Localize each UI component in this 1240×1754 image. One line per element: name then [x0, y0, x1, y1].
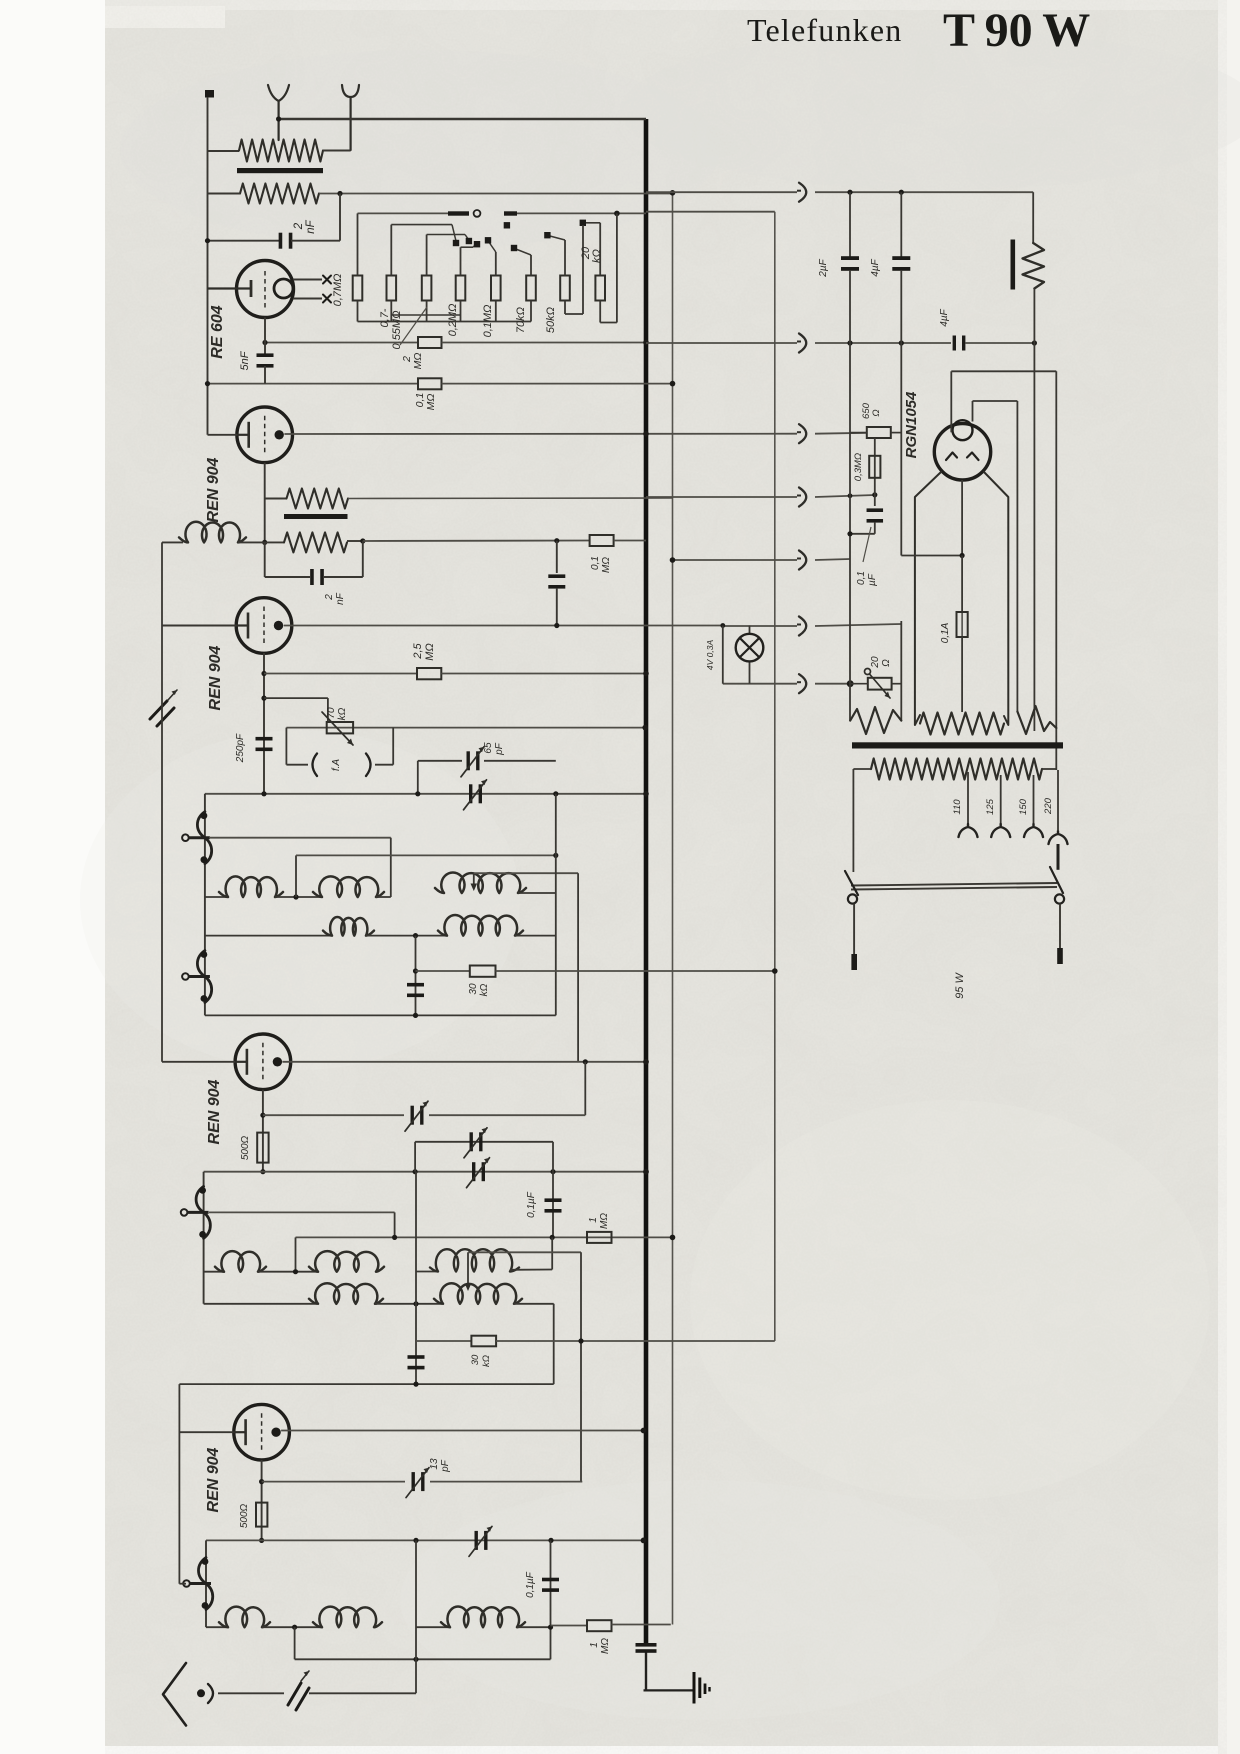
wire terminal to coil L1 — [208, 150, 240, 152]
wire V6 anode1 top link — [951, 370, 1056, 372]
wire V2 anode line to connector — [284, 433, 797, 435]
connector plug 6 — [799, 617, 806, 636]
core bar of choke — [284, 514, 348, 519]
contact dot of selector switch — [544, 232, 550, 238]
svg-text:kΩ: kΩ — [481, 1355, 492, 1367]
capacitor C23 0,1uF — [867, 508, 884, 512]
wire to potentiometer — [264, 697, 328, 699]
wire left vertical V1 grid chain — [207, 151, 209, 435]
wire C18 to filter3 — [309, 1692, 416, 1694]
wire filter2 right vertical — [553, 1304, 555, 1384]
wire W2 end right — [1055, 371, 1057, 770]
svg-text:150: 150 — [1018, 798, 1029, 815]
trimmer capacitor C8 on left vertical — [150, 701, 174, 726]
junction net B top — [670, 190, 676, 196]
svg-text:MΩ: MΩ — [600, 1638, 611, 1654]
resistor R18 30kOhm — [471, 1336, 496, 1347]
resistor network R6 (box) — [526, 276, 536, 301]
coil L4 (3 bumps) — [179, 522, 246, 543]
wire R15 to net C — [496, 970, 775, 972]
junction speaker lead — [1032, 340, 1037, 345]
resistor R22 0,3MOhm — [869, 456, 880, 478]
wire plug4 to divider — [815, 495, 875, 497]
wire W2 end left — [1016, 401, 1018, 712]
mains pin left blob — [851, 954, 857, 970]
variable capacitor C16 — [475, 1531, 478, 1550]
svg-text:Ω: Ω — [881, 659, 892, 667]
transformer heater winding W1 (zigzag) — [850, 707, 901, 734]
junction at bus — [642, 725, 648, 731]
svg-text:0,1µF: 0,1µF — [526, 1191, 537, 1218]
resistor R20 1MOhm — [587, 1620, 612, 1631]
wire to speaker — [1032, 192, 1034, 243]
wire varcap row left — [263, 1114, 404, 1116]
wire oscillator vertical — [580, 1252, 582, 1481]
band switch S3 — [181, 1186, 211, 1238]
junction at net C — [772, 968, 778, 974]
svg-text:REN 904: REN 904 — [207, 645, 224, 710]
wiper contact (open circle) — [474, 210, 481, 217]
junction C4 at anode line — [554, 623, 559, 628]
svg-text:0,1: 0,1 — [856, 571, 867, 585]
junction oscillator vertical — [578, 1338, 583, 1343]
svg-text:4µF: 4µF — [939, 308, 950, 326]
wire anode vertical V4 — [577, 873, 579, 1062]
tube V1 RE 604 — [208, 261, 294, 318]
trimmer C11 — [470, 1132, 473, 1151]
svg-text:30: 30 — [470, 1354, 481, 1365]
wire to R13 2,5MOhm — [264, 673, 417, 675]
svg-text:REN 904: REN 904 — [205, 1447, 222, 1512]
coil L16 filter3 mid — [313, 1607, 382, 1628]
capacitor C13 0,1uF — [545, 1198, 562, 1202]
wire pot line to bus — [286, 727, 646, 729]
svg-text:0,1A: 0,1A — [940, 622, 951, 643]
svg-text:kΩ: kΩ — [337, 707, 348, 720]
junction L2 / capacitor branch — [337, 191, 342, 196]
svg-text:4µF: 4µF — [870, 258, 881, 276]
svg-text:RGN1054: RGN1054 — [903, 391, 920, 458]
resistor R10 2MOhm — [418, 337, 442, 348]
wire R21 to HT chain — [891, 432, 902, 434]
arrow of potentiometer — [322, 712, 353, 745]
svg-text:2: 2 — [324, 594, 335, 601]
wire anode1 drop — [950, 371, 952, 432]
wire 4uF rail left — [646, 342, 797, 344]
wire plug5 to rail — [815, 559, 850, 560]
coil L12 oscillator (loops) — [416, 1271, 437, 1273]
wire filter3 right vertical — [550, 1540, 552, 1659]
wire rheostat right vertical — [900, 621, 902, 721]
wire tap 125 — [1000, 775, 1002, 824]
trimmer C12 — [472, 1162, 475, 1181]
switch f.A — [286, 728, 393, 776]
junction RC branch — [360, 538, 365, 543]
coil L17 filter3 right — [416, 1626, 449, 1628]
junction 5nF top — [262, 340, 267, 345]
svg-text:20: 20 — [870, 656, 881, 669]
svg-text:0,7-: 0,7- — [379, 308, 391, 327]
wire trimmer box left — [417, 761, 419, 794]
wire cathode return row — [204, 1171, 646, 1173]
wire V3 grid lead from far-left vertical — [162, 625, 237, 627]
wire L2 to net B — [319, 193, 673, 195]
resistor R11 0,1MOhm — [418, 378, 442, 389]
svg-text:pF: pF — [440, 1459, 451, 1473]
wire filter1 left vertical — [204, 794, 206, 1016]
transformer winding W3 (zigzag hook) — [1017, 706, 1056, 734]
wire to R18 30kOhm — [416, 1340, 471, 1342]
wire V4 cathode chain — [262, 1090, 264, 1172]
svg-text:nF: nF — [335, 592, 346, 605]
wire row2 middle — [366, 935, 446, 937]
wire RC branch down — [362, 541, 364, 577]
resistor network R5 (box) — [491, 276, 501, 301]
junction at bus — [641, 1538, 647, 1544]
wire R18 to net C — [496, 1340, 775, 1342]
transformer core bar — [852, 742, 1063, 748]
tube V6 envelope leads — [915, 472, 941, 725]
wire tap row to right vertical — [296, 854, 556, 856]
wire network top connections — [358, 213, 601, 275]
svg-text:1: 1 — [589, 1642, 600, 1648]
x mark pin — [323, 295, 331, 303]
svg-text:0,55MΩ: 0,55MΩ — [391, 311, 403, 350]
svg-text:13: 13 — [429, 1458, 440, 1470]
rheostat arrow — [870, 674, 891, 698]
wire top HT rail right — [815, 191, 1033, 193]
svg-text:110: 110 — [952, 799, 963, 815]
trimmer C15 13pF — [412, 1472, 415, 1491]
wire connector 3 to R 650 Ohm — [815, 432, 867, 435]
wire long vertical net B — [672, 192, 674, 1624]
svg-text:0,1: 0,1 — [590, 556, 601, 570]
wire selector rail B — [504, 211, 517, 215]
connector plug 3 — [799, 424, 806, 443]
wire V6 filament centre — [961, 480, 963, 556]
contact dot of selector switch — [474, 241, 480, 247]
svg-text:kΩ: kΩ — [479, 983, 490, 996]
wire divider chain — [874, 438, 876, 506]
svg-text:5nF: 5nF — [239, 350, 251, 370]
coil L6 row1 right — [313, 876, 384, 897]
svg-text:65: 65 — [483, 742, 494, 754]
capacitor C17 0,1uF — [542, 1578, 559, 1582]
wire speaker return — [1033, 289, 1035, 732]
junction antenna stem / top rail — [276, 116, 281, 121]
wire divider to rail — [850, 533, 875, 535]
choke L3b (zigzag) — [284, 532, 347, 552]
wire inner rail — [295, 1658, 551, 1660]
resistor R21 650 Ohm — [867, 427, 891, 438]
wire mains pin left — [853, 904, 855, 956]
wire selector rail A with wiper — [358, 212, 449, 214]
resistor R15 30kOhm — [470, 966, 496, 977]
wire V5 grid vertical — [178, 1384, 180, 1584]
connector plug 2 — [799, 334, 806, 353]
tube V3 REN 904 (2nd) — [236, 598, 292, 654]
svg-text:f.A: f.A — [331, 759, 342, 772]
wire PSU left rail — [849, 270, 851, 721]
wire L4 left lead — [162, 541, 183, 543]
wire R10 to bus — [442, 342, 647, 344]
wire top HT rail left — [646, 191, 797, 193]
svg-text:Ω: Ω — [871, 409, 882, 416]
wire to coil E right lead — [551, 1237, 553, 1269]
svg-text:0,1µF: 0,1µF — [525, 1571, 536, 1598]
wire to choke zigzag — [265, 498, 287, 500]
wire rowA tap — [295, 1237, 297, 1271]
contact dot of selector switch — [485, 237, 491, 243]
junction at bus — [643, 671, 649, 677]
resistor R13 2,5MOhm — [417, 668, 441, 679]
wire C2 to grid row — [264, 366, 266, 384]
wire between L5 L6 — [275, 896, 321, 898]
wire R11 to net B — [442, 383, 673, 385]
wire 220 to switch right — [1057, 844, 1060, 870]
coil L13 rowB left — [204, 1303, 317, 1305]
coil L15 filter3 left — [206, 1626, 227, 1628]
plug pin dot — [197, 1689, 205, 1697]
wire L12 right lead — [510, 1269, 552, 1271]
svg-text:500Ω: 500Ω — [240, 1135, 251, 1160]
wire right vertical to 0,1uF — [552, 1142, 554, 1237]
junction pot row — [261, 696, 266, 701]
wire long vertical net C (oscillator) — [774, 212, 776, 1341]
svg-text:2,5: 2,5 — [412, 642, 424, 659]
wire bus below series capacitor — [645, 1652, 647, 1690]
wire W4 to switch left — [852, 769, 854, 872]
svg-text:30: 30 — [468, 983, 479, 995]
junction at net B — [670, 557, 676, 563]
resistor network R2 (box) — [387, 276, 397, 301]
wire cap C4 branch upper — [556, 541, 558, 573]
resistor network R1 (box) — [353, 276, 363, 301]
resistor network R7 (box) — [560, 276, 570, 301]
resistor R16 500 Ohm — [257, 1133, 268, 1163]
wire plug6 to rheostat box — [815, 624, 901, 626]
wire filter3 left vertical — [205, 1540, 207, 1627]
rheostat R23 20 Ohm — [868, 678, 892, 690]
wire rail to R21 — [850, 432, 867, 434]
wire tap to anode vertical — [474, 872, 578, 874]
wire S3 wiper arm — [209, 1211, 395, 1213]
wire L4 to zigzag L3b — [238, 541, 284, 543]
capacitor C4 — [548, 574, 565, 578]
coil L5 row1 left — [205, 896, 227, 898]
dial lamp — [723, 626, 764, 684]
svg-text:pF: pF — [494, 742, 505, 756]
wire anode drop — [584, 1062, 586, 1115]
svg-text:70kΩ: 70kΩ — [515, 307, 527, 333]
resistor network R4 (box) — [456, 276, 466, 301]
fuse 0,1A — [957, 612, 968, 637]
wire grid row filter3 — [206, 1539, 644, 1541]
mains switch lever — [845, 867, 1064, 904]
wire filter1 right vertical — [555, 794, 557, 1016]
svg-text:1: 1 — [588, 1217, 599, 1223]
wire 13pF row right — [430, 1481, 582, 1483]
wire junction drop — [339, 194, 341, 241]
junction anode vertical — [583, 1059, 588, 1064]
svg-text:T 90 W: T 90 W — [943, 4, 1090, 57]
wire from bus to net C top — [646, 211, 775, 213]
wire C1 to junction — [291, 240, 340, 242]
svg-text:RE 604: RE 604 — [209, 305, 226, 358]
junction varcap row — [260, 1113, 265, 1118]
svg-text:250pF: 250pF — [235, 733, 246, 763]
wire tap row to vertical — [468, 1251, 581, 1253]
wire trim box top — [415, 1141, 553, 1143]
antenna terminal — [205, 90, 214, 98]
capacitor C19 (bus series) — [636, 1643, 657, 1647]
svg-text:500Ω: 500Ω — [239, 1503, 250, 1528]
wire to S4 contact — [179, 1583, 186, 1585]
wire 13pF row — [262, 1481, 405, 1483]
coil L11 rowA right — [309, 1251, 384, 1272]
wire trim box left — [414, 1142, 416, 1172]
band switch S1 — [182, 812, 212, 864]
connector plug 1 — [799, 183, 806, 202]
transformer mains primary W4 (zigzag) — [871, 759, 1042, 780]
svg-text:MΩ: MΩ — [599, 1213, 610, 1229]
contact dot of selector switch — [466, 238, 472, 244]
svg-text:nF: nF — [305, 219, 317, 233]
junction heater rail — [847, 680, 854, 687]
connector plug 7 — [799, 674, 806, 693]
wire lamp bottom rail — [723, 683, 797, 685]
junction cathode / L4 — [262, 540, 267, 545]
svg-text:MΩ: MΩ — [425, 394, 437, 411]
contact dot of selector switch — [453, 240, 459, 246]
wire grid row V5 — [296, 1236, 673, 1238]
svg-text:kΩ: kΩ — [591, 249, 603, 263]
coil L2 antenna secondary (zigzag) — [240, 184, 319, 204]
resistor R12 0,1MOhm — [590, 535, 614, 546]
wire to R15 30kOhm — [416, 970, 470, 972]
svg-text:2: 2 — [293, 222, 305, 230]
resistor R17 1MOhm — [587, 1232, 612, 1243]
mains tap fork 125 — [991, 824, 1010, 837]
wire V4 anode line — [282, 1061, 646, 1063]
wire V5 anode line — [281, 1430, 643, 1432]
tube V5 REN 904 (4th) — [234, 1404, 290, 1460]
junction lamp loop — [720, 623, 725, 628]
junction row1 tap — [293, 894, 298, 899]
wire filter1 bottom rail — [205, 1014, 556, 1016]
wire V6 anode2 top link — [973, 400, 1018, 402]
resistor network R3 (box) — [422, 276, 432, 301]
svg-text:0,2MΩ: 0,2MΩ — [447, 304, 459, 337]
trimmer C6 65pF — [467, 751, 470, 770]
coil L1 antenna primary (zigzag) — [239, 140, 323, 162]
svg-text:2µF: 2µF — [818, 258, 829, 277]
wire plug to C18 — [218, 1692, 284, 1694]
svg-text:REN 904: REN 904 — [206, 1079, 223, 1144]
trimmer C7 (padder) — [469, 784, 472, 803]
leader line 0,1uF — [863, 527, 871, 562]
wire bus to ground — [644, 1689, 695, 1691]
wire fuse to W2 centre tap — [961, 637, 963, 712]
wire filter3 cap vertical — [415, 1540, 417, 1693]
wire rowA middle — [258, 1271, 317, 1273]
wire V2 cathode down — [264, 463, 266, 543]
resistor network R8 (box) — [595, 276, 605, 301]
wire to R20 1MOhm — [551, 1625, 588, 1627]
wire V1 grid1 lead — [293, 279, 322, 281]
coil L7 (antenna coupling row1 right) — [435, 872, 526, 893]
svg-text:0,1MΩ: 0,1MΩ — [482, 305, 494, 338]
variable capacitor C10 — [411, 1106, 414, 1125]
transformer HT winding W2 (zigzag) — [920, 713, 1004, 735]
band switch S2 — [182, 951, 212, 1003]
wire C20 2uF top — [849, 192, 851, 257]
wire C21 bottom / HT chain — [900, 270, 902, 556]
wire tap 220 — [1057, 770, 1059, 831]
band switch S4 — [183, 1558, 213, 1610]
svg-text:0,7MΩ: 0,7MΩ — [332, 274, 344, 307]
junction padder row at bus — [643, 791, 649, 797]
svg-text:Telefunken: Telefunken — [747, 12, 902, 48]
wire to capacitor C3 — [265, 576, 310, 578]
svg-text:REN 904: REN 904 — [205, 457, 222, 522]
mains tap fork 150 — [1024, 824, 1043, 837]
wire arm drop — [390, 838, 392, 897]
wire W4 left lead — [853, 768, 871, 770]
wire tap 110 — [967, 772, 969, 824]
wire grid line to R10 2MOhm — [265, 342, 418, 344]
wire V3 anode line to lamp loop — [284, 625, 723, 627]
wire tap 150 — [1033, 775, 1035, 824]
wire row1 tap up — [295, 855, 297, 897]
wire HT takeoff — [901, 555, 962, 557]
junction anode at bus — [641, 1428, 647, 1434]
capacitor C5 250pF — [256, 737, 273, 741]
wire antenna top rail to bus — [279, 118, 646, 121]
junction AVC row — [413, 968, 418, 973]
coil L9 row2 right — [438, 915, 523, 936]
mains tap fork 110 — [959, 824, 978, 837]
svg-text:50kΩ: 50kΩ — [545, 307, 557, 333]
wire V1 cathode to C2 — [264, 318, 266, 355]
wire R20 to net B — [612, 1624, 671, 1626]
wire trimmer row upper — [418, 760, 462, 762]
wire R13 to bus — [441, 673, 646, 675]
wire V2 grid lead from V1 chain — [208, 434, 238, 436]
antenna plug (chevron) — [163, 1663, 186, 1726]
wire choke to net B — [348, 497, 673, 500]
wire V5 grid lead — [179, 1431, 233, 1433]
resistor R19 500 Ohm — [256, 1503, 267, 1527]
capacitor C1 2nF — [279, 233, 283, 249]
connector plug 4 — [799, 488, 806, 507]
wire plug5 rail — [673, 559, 798, 561]
tube V6 RGN 1054 — [934, 420, 990, 480]
contact dot of selector switch — [511, 245, 517, 251]
junction on V1 chain — [205, 381, 210, 386]
wire cap C4 branch lower — [556, 588, 558, 626]
svg-text:95 W: 95 W — [954, 972, 966, 999]
capacitor C3 2nF — [310, 569, 314, 585]
junction at net B — [670, 1235, 676, 1241]
wire L7 right lead — [518, 892, 556, 894]
capacitor C21 4uF — [892, 256, 910, 260]
junction at bus — [643, 1169, 649, 1175]
tube V2 REN 904 (1st AF) — [237, 407, 293, 463]
wire L12 tap up — [467, 1252, 469, 1286]
x mark pin — [323, 276, 331, 284]
junction rail B / R9 chain — [614, 211, 620, 217]
